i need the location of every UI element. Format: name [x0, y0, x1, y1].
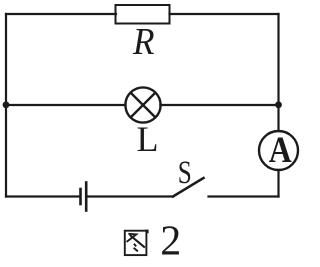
lamp L	[125, 87, 160, 122]
wire right vertical upper	[277, 14, 279, 131]
wire right vertical lower	[277, 170, 279, 197]
tu inner stroke: right-falling na	[130, 235, 145, 248]
tu inner stroke: horizontal + left-falling	[127, 234, 137, 242]
battery long plate (positive)	[85, 183, 88, 211]
wire left vertical	[5, 14, 7, 197]
battery short plate (negative)	[79, 189, 82, 204]
svg-text:L: L	[137, 119, 159, 159]
svg-text:A: A	[269, 130, 292, 171]
wire top right segment	[170, 13, 279, 15]
svg-text:R: R	[132, 21, 154, 63]
tu outer box	[125, 231, 147, 255]
wire top left segment	[6, 13, 116, 15]
wire bottom right segment	[209, 195, 279, 197]
tu box corner serif	[146, 230, 149, 234]
ammeter A	[259, 131, 298, 170]
wire bottom middle segment	[88, 195, 174, 197]
wire bottom left segment	[6, 195, 79, 197]
caption: hanzi tu (figure) drawn as strokes	[125, 230, 149, 255]
node junction right	[275, 101, 282, 108]
svg-text:2: 2	[160, 219, 181, 263]
svg-text:S: S	[178, 155, 192, 191]
tu inner dot 2	[134, 248, 138, 252]
switch S blade	[173, 178, 204, 197]
wire middle left segment	[6, 104, 126, 106]
resistor R	[116, 5, 170, 24]
wire middle right segment	[160, 104, 278, 106]
tu inner dot 1	[134, 244, 136, 247]
node junction left	[3, 101, 10, 108]
